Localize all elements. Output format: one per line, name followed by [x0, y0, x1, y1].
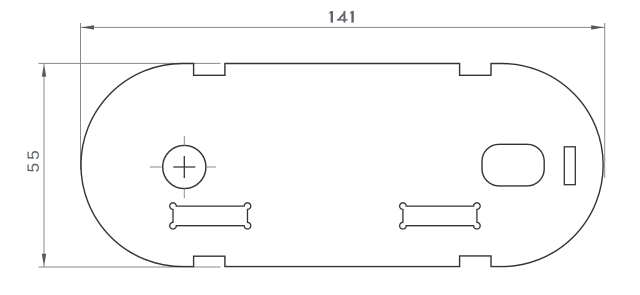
dimension text 141 (geometric CAD glyphs): [329, 11, 354, 23]
plate outline (obround plate with edge notches): [81, 64, 603, 267]
center mark cross (black): [173, 156, 195, 178]
extension line bottom of 55 dim: [39, 266, 221, 268]
dimension line 55: [43, 63, 45, 267]
center mark tick bottom: [183, 189, 185, 199]
arrowhead top of 55: [42, 64, 46, 77]
dimension line 141: [81, 26, 605, 28]
center mark tick right: [206, 166, 216, 168]
center mark tick top: [183, 136, 185, 146]
dog-bone slot left: [170, 203, 251, 229]
arrowhead left of 141: [81, 25, 94, 29]
extension line top of 55 dim: [39, 62, 221, 64]
extension line left of 141 dim: [80, 23, 82, 170]
center mark tick left: [150, 166, 162, 168]
obround hole right: [482, 144, 544, 186]
circular hole: [163, 145, 206, 188]
arrowhead bottom of 55: [42, 254, 46, 267]
svg-text:5: 5: [24, 163, 43, 172]
arrowhead right of 141: [591, 25, 604, 29]
extension line right of 141 dim: [604, 23, 606, 178]
svg-text:5: 5: [24, 150, 43, 159]
small rectangular slot: [564, 147, 575, 185]
dog-bone slot right: [400, 203, 481, 229]
